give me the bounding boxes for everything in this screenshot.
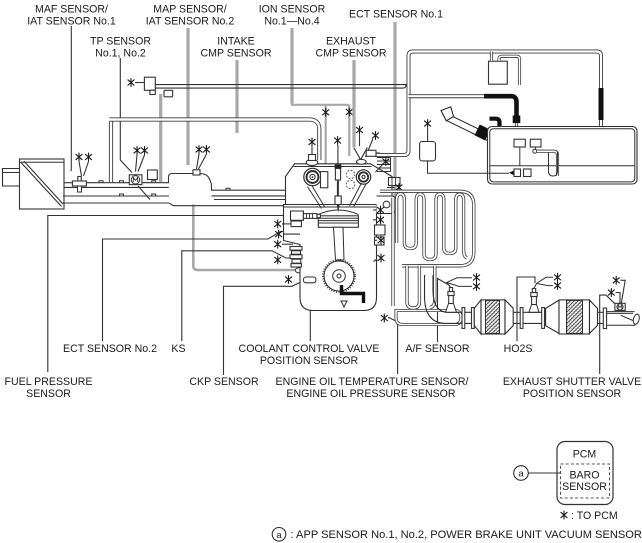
cat2 inlet cone — [546, 300, 559, 333]
exhaust flange E — [603, 308, 606, 329]
leader KS — [182, 251, 293, 341]
HO2S boss — [529, 305, 539, 313]
intake CMP sensor — [306, 160, 318, 166]
svg-text:A/F SENSOR: A/F SENSOR — [405, 343, 470, 355]
ION coil drop 1 — [325, 105, 327, 164]
purge asterisk — [128, 78, 135, 87]
coolant pipe main — [110, 120, 320, 161]
svg-text:No.1—No.4: No.1—No.4 — [264, 16, 319, 28]
right asterisk 1 — [382, 157, 389, 166]
exhaust pipe 2 — [513, 312, 603, 323]
exhaust CMP sensor — [354, 148, 368, 160]
head joint lines — [284, 205, 391, 208]
svg-text:a: a — [518, 469, 524, 480]
fuel pressure sensor body — [303, 214, 317, 219]
svg-text:CKP SENSOR: CKP SENSOR — [189, 376, 259, 388]
serpentine lower header — [396, 311, 461, 325]
tail pipe — [607, 312, 636, 326]
svg-text:MAP SENSOR/: MAP SENSOR/ — [153, 4, 226, 16]
assembly drop line — [520, 147, 536, 166]
serpentine outer top — [380, 191, 474, 265]
left asterisk 2 — [275, 230, 282, 239]
oil sensors asterisk — [381, 314, 388, 323]
leader ECT1 gray — [393, 22, 396, 202]
shutter asterisks — [613, 276, 620, 285]
left asterisk 4 — [274, 256, 281, 265]
cam chain dashed — [346, 170, 354, 178]
crank trigger wheel — [324, 261, 354, 291]
ION asterisk 2 — [346, 108, 353, 117]
fuel rail elbow — [291, 211, 304, 220]
CKP asterisk — [285, 275, 292, 284]
svg-text:BARO: BARO — [569, 470, 599, 482]
MAP sensor — [193, 170, 200, 175]
serpentine lower legs — [407, 266, 435, 308]
thermostat arrow — [509, 171, 514, 175]
svg-text:ECT SENSOR No.1: ECT SENSOR No.1 — [349, 9, 443, 21]
svg-text:KS: KS — [171, 343, 185, 355]
serpentine U2 — [424, 194, 444, 260]
exhaust flange A — [462, 308, 465, 329]
right head stub — [366, 150, 376, 156]
svg-text:PCM: PCM — [573, 448, 597, 460]
AF asterisk pair — [473, 273, 480, 282]
intake cam sprocket — [304, 168, 321, 185]
idle box — [148, 170, 158, 180]
svg-text:ECT SENSOR No.2: ECT SENSOR No.2 — [63, 343, 157, 355]
right component mid — [375, 225, 386, 235]
throttle linkage diagonal — [138, 186, 150, 200]
exhaust flange D — [542, 308, 545, 329]
ION gray branch — [291, 104, 349, 106]
cat2 outlet cone — [590, 300, 598, 333]
fuel sensor asterisk — [274, 220, 281, 229]
right asterisk pair mid — [377, 206, 384, 215]
intake duct — [63, 174, 285, 206]
booster hose gray — [193, 205, 295, 271]
assembly divider — [490, 165, 635, 167]
cat1 body — [481, 300, 505, 334]
purge tube pair — [155, 85, 410, 89]
vacuum box line — [428, 161, 510, 173]
svg-text:: TO PCM: : TO PCM — [571, 510, 618, 522]
a to PCM line — [528, 472, 560, 474]
svg-text:EXHAUST SHUTTER VALVE: EXHAUST SHUTTER VALVE — [503, 376, 641, 388]
AF sensor stem — [449, 296, 454, 304]
thermostat rect — [514, 169, 521, 177]
serpentine U1 — [397, 194, 424, 254]
svg-text:MAF SENSOR/: MAF SENSOR/ — [35, 4, 108, 16]
dipstick connector black — [474, 124, 490, 140]
leader ION gray — [290, 28, 293, 104]
cat1 outlet cone — [505, 300, 513, 334]
reservoir overflow tube — [499, 56, 520, 85]
intake CMP asterisk — [309, 138, 316, 147]
heater pipe — [375, 52, 601, 156]
piston — [318, 216, 358, 228]
HO2S stem — [532, 297, 537, 305]
coolant pipe left vertical — [109, 122, 113, 183]
AF sensor wire — [447, 278, 473, 288]
purge small box — [164, 90, 173, 97]
serpentine left pipe — [391, 198, 394, 306]
svg-text:POSITION SENSOR: POSITION SENSOR — [523, 388, 622, 400]
MAP asterisk pair — [196, 145, 203, 154]
svg-text:TP SENSOR: TP SENSOR — [90, 36, 151, 48]
shutter valve M — [617, 304, 623, 310]
svg-text:CMP SENSOR: CMP SENSOR — [200, 48, 271, 60]
assembly rect 2 — [530, 139, 541, 147]
water hose 2 thick — [484, 96, 517, 117]
exhaust pipe 1 — [458, 312, 475, 323]
plug asterisk — [334, 136, 341, 145]
right harness bracket — [596, 145, 601, 152]
assembly U notch — [549, 152, 558, 176]
leader MAF — [70, 26, 72, 171]
leader CCV — [302, 261, 310, 341]
svg-text:FUEL PRESSURE: FUEL PRESSURE — [5, 376, 93, 388]
cat2 body — [559, 300, 590, 334]
assembly outer box — [488, 127, 638, 185]
leader intake-CMP gray — [235, 60, 238, 133]
CKP sensor — [304, 277, 316, 283]
svg-text:COOLANT CONTROL VALVE: COOLANT CONTROL VALVE — [239, 343, 380, 355]
svg-text:IAT SENSOR No.2: IAT SENSOR No.2 — [146, 16, 235, 28]
MAF asterisk pair — [76, 153, 83, 162]
svg-text:EXHAUST: EXHAUST — [326, 36, 377, 48]
leader SHUTTER — [600, 295, 615, 374]
leader ECT2 — [103, 232, 292, 342]
leader FUEL — [48, 216, 291, 373]
ignition coil plug — [335, 165, 342, 169]
exhaust flange C — [520, 308, 523, 329]
svg-text:IAT SENSOR No.1: IAT SENSOR No.1 — [27, 16, 116, 28]
BARO dashed box — [561, 464, 610, 498]
heater hose right thick — [599, 88, 604, 120]
svg-text:No.1, No.2: No.1, No.2 — [95, 48, 146, 60]
coolant control valve stack — [290, 247, 302, 251]
intake valve — [308, 185, 326, 209]
duct clamp ticks — [99, 181, 230, 196]
svg-text:ENGINE OIL PRESSURE SENSOR: ENGINE OIL PRESSURE SENSOR — [286, 388, 455, 400]
vacuum box asterisk — [424, 119, 431, 128]
booster hose ring — [295, 268, 303, 273]
ECT1 sensor box — [389, 178, 401, 186]
exhaust valve — [350, 183, 367, 207]
svg-text:SENSOR: SENSOR — [26, 388, 71, 400]
leader OIL — [389, 318, 398, 375]
EGR manifold flange — [377, 158, 391, 172]
shutter valve box — [615, 303, 625, 310]
exhaust downpipe — [425, 275, 459, 323]
exhaust CMP asterisks — [356, 126, 363, 135]
coolant reservoir — [489, 61, 508, 84]
throttle motor M — [131, 176, 139, 184]
TP asterisk pair — [134, 146, 141, 155]
right asterisk 2 — [396, 183, 403, 192]
reservoir inlet tube — [490, 52, 493, 62]
cat1 inlet cone — [474, 300, 481, 334]
air cleaner box — [20, 159, 65, 209]
serpentine U3 — [444, 194, 467, 258]
leader exhaust-CMP gray — [352, 60, 355, 147]
MAF sensor — [78, 177, 81, 182]
throttle body — [129, 175, 142, 185]
svg-text:INTAKE: INTAKE — [217, 36, 254, 48]
svg-text:POSITION SENSOR: POSITION SENSOR — [260, 355, 359, 367]
right asterisk 5 — [378, 236, 385, 245]
assembly corner tube — [537, 151, 558, 176]
exhaust flange B — [472, 308, 475, 329]
circle a node — [514, 466, 529, 481]
legend TO PCM — [561, 511, 568, 520]
leader TP — [120, 58, 132, 173]
svg-text:: APP SENSOR No.1, No.2, POWER: : APP SENSOR No.1, No.2, POWER BRAKE UNI… — [291, 529, 642, 541]
vacuum reservoir box — [420, 142, 436, 161]
oil drain thick line — [342, 285, 364, 303]
purge solenoid valve — [144, 77, 155, 90]
combustion dome — [318, 210, 358, 215]
leader HO2S — [517, 277, 535, 341]
hose2 connector — [513, 116, 521, 124]
assembly rect 1 — [514, 139, 525, 147]
crank trigger teeth — [323, 260, 355, 292]
assembly circle — [533, 149, 537, 153]
HO2S asterisk pair — [554, 273, 561, 282]
air filter diagonal — [21, 161, 63, 207]
connecting rod — [334, 227, 345, 260]
water hose 2 — [409, 94, 506, 98]
cam block rect — [321, 172, 328, 188]
engine block outline — [284, 204, 377, 311]
hose2 lower — [515, 123, 518, 166]
svg-text:ENGINE OIL TEMPERATURE SENSOR/: ENGINE OIL TEMPERATURE SENSOR/ — [276, 376, 469, 388]
oil dipstick handle — [441, 107, 454, 121]
right asterisk 6 — [378, 254, 385, 263]
oil dipstick tube — [447, 117, 493, 141]
air inlet snorkel — [3, 169, 20, 187]
leader AF — [438, 279, 449, 343]
assembly inner line — [490, 129, 635, 182]
circle a legend — [272, 528, 286, 542]
ION asterisk 1 — [322, 108, 329, 117]
purge hose gray — [159, 94, 162, 182]
ION coil drop 2 — [348, 105, 350, 156]
svg-text:ION SENSOR: ION SENSOR — [259, 4, 326, 16]
svg-text:HO2S: HO2S — [504, 343, 533, 355]
leader MAP gray — [186, 28, 189, 165]
svg-text:CMP SENSOR: CMP SENSOR — [315, 48, 386, 60]
svg-text:SENSOR: SENSOR — [562, 481, 607, 493]
thermostat housing right — [377, 196, 397, 214]
leader CKP — [224, 281, 304, 375]
valve cover — [286, 164, 393, 204]
PCM box — [557, 442, 613, 505]
HO2S wire — [534, 277, 553, 288]
left asterisk 3 — [274, 240, 281, 249]
svg-text:a: a — [276, 530, 282, 541]
dipstick hose elbow — [490, 119, 500, 128]
exhaust cam sprocket — [356, 170, 370, 184]
AF sensor boss — [446, 304, 457, 313]
